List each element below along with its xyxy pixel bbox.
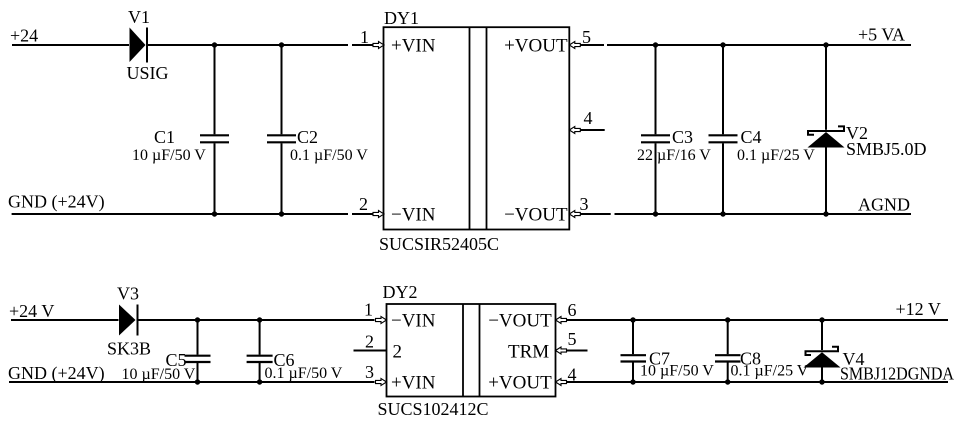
svg-text:GND (+24V): GND (+24V) xyxy=(8,192,105,213)
svg-text:DY2: DY2 xyxy=(383,282,418,302)
svg-text:C1: C1 xyxy=(154,127,175,147)
svg-text:+24 V: +24 V xyxy=(9,301,54,321)
svg-text:5: 5 xyxy=(568,329,577,349)
svg-text:GND (+24V): GND (+24V) xyxy=(8,363,105,384)
svg-text:+VIN: +VIN xyxy=(391,35,436,56)
svg-text:AGND: AGND xyxy=(858,195,910,215)
svg-text:0.1 µF/50 V: 0.1 µF/50 V xyxy=(290,147,368,164)
svg-text:−VIN: −VIN xyxy=(391,311,436,332)
svg-text:+5 VA: +5 VA xyxy=(858,25,905,45)
svg-text:22 µF/16 V: 22 µF/16 V xyxy=(637,147,711,164)
svg-text:6: 6 xyxy=(568,300,577,320)
svg-text:3: 3 xyxy=(365,362,374,382)
svg-text:DY1: DY1 xyxy=(384,8,419,28)
svg-text:10 µF/50 V: 10 µF/50 V xyxy=(640,363,714,380)
svg-text:SK3B: SK3B xyxy=(107,339,151,359)
svg-text:V3: V3 xyxy=(117,284,139,304)
svg-text:C2: C2 xyxy=(297,127,318,147)
svg-text:C3: C3 xyxy=(672,127,693,147)
svg-text:2: 2 xyxy=(359,194,368,214)
svg-text:−VOUT: −VOUT xyxy=(488,311,552,332)
svg-text:10 µF/50 V: 10 µF/50 V xyxy=(132,147,206,164)
svg-text:−VOUT: −VOUT xyxy=(504,204,568,225)
svg-text:0.1 µF/25 V: 0.1 µF/25 V xyxy=(737,147,815,164)
svg-text:SMBJ5.0D: SMBJ5.0D xyxy=(846,139,927,159)
svg-text:2: 2 xyxy=(365,332,374,352)
svg-text:0.1 µF/25 V: 0.1 µF/25 V xyxy=(731,363,809,380)
svg-text:3: 3 xyxy=(580,194,589,214)
svg-text:TRM: TRM xyxy=(508,342,549,363)
svg-text:+VIN: +VIN xyxy=(391,373,436,394)
svg-text:SMBJ12DGNDA: SMBJ12DGNDA xyxy=(840,364,954,384)
svg-text:SUCS102412C: SUCS102412C xyxy=(378,399,489,419)
svg-text:C5: C5 xyxy=(166,350,187,370)
svg-text:2: 2 xyxy=(393,342,403,363)
svg-text:+12 V: +12 V xyxy=(896,299,941,319)
svg-text:C4: C4 xyxy=(741,127,762,147)
svg-text:0.1 µF/50 V: 0.1 µF/50 V xyxy=(265,365,343,382)
svg-text:4: 4 xyxy=(584,108,593,128)
svg-text:SUCSIR52405C: SUCSIR52405C xyxy=(379,234,499,254)
svg-text:4: 4 xyxy=(568,365,577,385)
svg-text:+VOUT: +VOUT xyxy=(488,373,552,394)
svg-text:+VOUT: +VOUT xyxy=(504,35,568,56)
svg-text:USIG: USIG xyxy=(127,63,169,83)
svg-text:V1: V1 xyxy=(128,7,150,27)
svg-text:+24: +24 xyxy=(10,26,38,46)
svg-text:1: 1 xyxy=(364,300,373,320)
svg-text:−VIN: −VIN xyxy=(391,204,436,225)
svg-text:5: 5 xyxy=(582,27,591,47)
svg-text:1: 1 xyxy=(360,27,369,47)
